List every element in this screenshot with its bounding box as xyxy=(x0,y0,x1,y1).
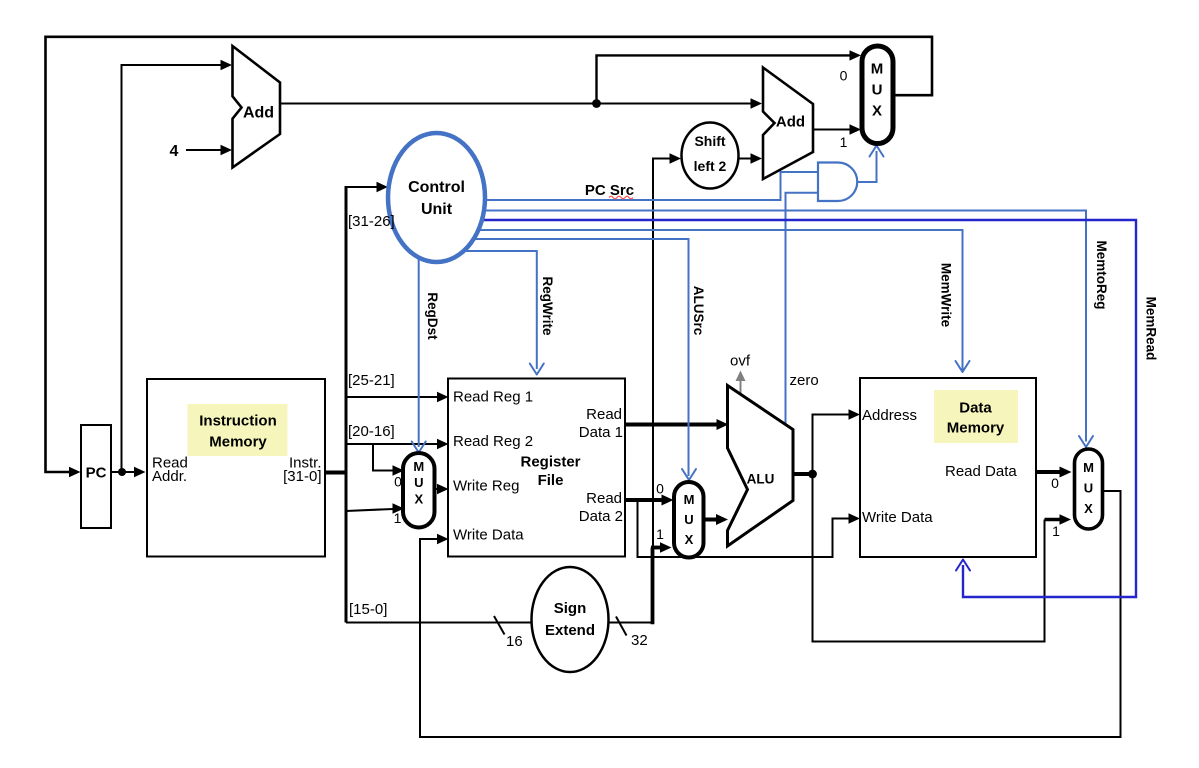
svg-text:[25-21]: [25-21] xyxy=(348,372,395,389)
svg-text:M: M xyxy=(684,492,695,507)
svg-text:[15-0]: [15-0] xyxy=(349,601,387,618)
svg-text:Data: Data xyxy=(959,400,992,417)
svg-text:MemRead: MemRead xyxy=(1144,297,1159,361)
svg-text:ALUSrc: ALUSrc xyxy=(691,286,706,336)
svg-text:Register: Register xyxy=(520,454,580,471)
svg-text:Write Data: Write Data xyxy=(862,509,933,526)
svg-text:Control: Control xyxy=(408,179,465,196)
svg-text:MemWrite: MemWrite xyxy=(939,263,954,328)
svg-text:U: U xyxy=(414,475,423,490)
svg-text:[31-0]: [31-0] xyxy=(283,468,321,485)
svg-text:PC: PC xyxy=(86,465,107,482)
svg-text:U: U xyxy=(684,512,693,527)
svg-text:Sign: Sign xyxy=(554,600,587,617)
svg-text:Instruction: Instruction xyxy=(199,413,277,430)
svg-text:1: 1 xyxy=(840,134,848,150)
svg-text:Read Reg 2: Read Reg 2 xyxy=(453,433,533,450)
svg-text:1: 1 xyxy=(1052,523,1060,539)
svg-text:File: File xyxy=(538,472,564,489)
svg-text:RegWrite: RegWrite xyxy=(540,276,555,336)
svg-text:X: X xyxy=(414,492,423,507)
svg-text:M: M xyxy=(1083,460,1094,475)
svg-text:X: X xyxy=(685,532,694,547)
svg-text:Unit: Unit xyxy=(421,201,453,218)
svg-text:M: M xyxy=(871,61,884,78)
svg-text:Add: Add xyxy=(243,105,274,122)
svg-text:Memory: Memory xyxy=(947,420,1005,437)
svg-text:Add: Add xyxy=(776,114,805,131)
svg-text:0: 0 xyxy=(656,481,664,497)
svg-text:X: X xyxy=(872,103,882,120)
svg-text:Read: Read xyxy=(586,406,622,423)
svg-text:ovf: ovf xyxy=(730,353,751,370)
svg-text:left 2: left 2 xyxy=(694,158,727,174)
svg-text:Write Reg: Write Reg xyxy=(453,478,519,495)
svg-text:Address: Address xyxy=(862,407,917,424)
svg-text:[20-16]: [20-16] xyxy=(348,423,395,440)
svg-text:Data 2: Data 2 xyxy=(579,508,623,525)
svg-text:M: M xyxy=(413,459,424,474)
svg-text:0: 0 xyxy=(394,474,402,490)
svg-text:0: 0 xyxy=(1051,475,1059,491)
svg-text:RegDst: RegDst xyxy=(425,292,440,340)
svg-text:4: 4 xyxy=(170,143,179,160)
svg-text:X: X xyxy=(1084,501,1093,516)
svg-text:1: 1 xyxy=(656,526,664,542)
svg-text:Read Data: Read Data xyxy=(945,463,1017,480)
svg-text:zero: zero xyxy=(790,372,819,389)
svg-text:U: U xyxy=(1084,481,1093,496)
svg-text:Extend: Extend xyxy=(545,622,595,639)
svg-text:Addr.: Addr. xyxy=(152,468,187,485)
svg-text:ALU: ALU xyxy=(747,472,775,487)
svg-text:[31-26]: [31-26] xyxy=(348,213,395,230)
svg-text:Memory: Memory xyxy=(209,434,267,451)
svg-text:1: 1 xyxy=(394,510,402,526)
svg-text:16: 16 xyxy=(506,633,523,650)
svg-text:Write Data: Write Data xyxy=(453,527,524,544)
svg-text:0: 0 xyxy=(840,68,848,84)
svg-text:U: U xyxy=(872,82,883,99)
svg-text:Read: Read xyxy=(586,490,622,507)
svg-text:MemtoReg: MemtoReg xyxy=(1094,240,1109,309)
svg-text:Shift: Shift xyxy=(694,133,725,149)
svg-text:32: 32 xyxy=(631,632,648,649)
svg-text:Data 1: Data 1 xyxy=(579,424,623,441)
svg-text:Read Reg 1: Read Reg 1 xyxy=(453,389,533,406)
